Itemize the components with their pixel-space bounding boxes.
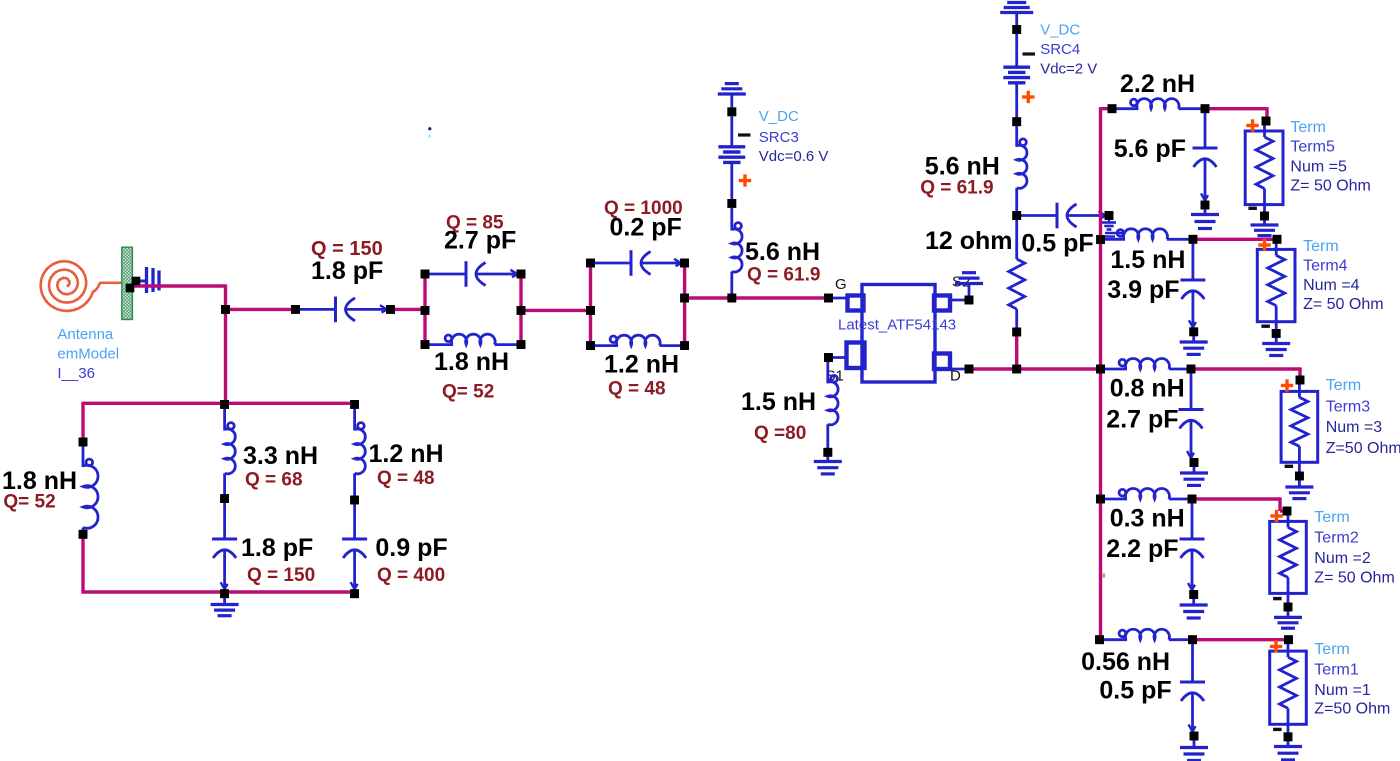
C1 value labels (311, 238, 383, 285)
C6 mini ground marker (1102, 220, 1116, 230)
svg-text:Z= 50 Ohm: Z= 50 Ohm (1303, 296, 1383, 313)
resistor R1 12 ohm (1009, 216, 1025, 337)
L8 labels (741, 388, 816, 444)
svg-text:Q = 48: Q = 48 (377, 468, 435, 489)
L11 label (1110, 246, 1185, 274)
svg-text:Term: Term (1326, 377, 1362, 394)
svg-text:Num =4: Num =4 (1303, 277, 1360, 294)
svg-text:3.9 pF: 3.9 pF (1107, 276, 1179, 304)
svg-text:Z= 50 Ohm: Z= 50 Ohm (1290, 178, 1370, 195)
L4 labels (2, 467, 77, 513)
inductor L2 1.8 nH (tank1) (425, 334, 521, 344)
ground S1 inductor (814, 452, 842, 474)
capacitor C6 0.5 pF (feedback) (1017, 203, 1114, 229)
U1 S1 tab (847, 343, 865, 369)
wire antenna to corner (133, 284, 226, 287)
svg-text:0.3 nH: 0.3 nH (1110, 505, 1185, 533)
ground C10 (1180, 595, 1208, 619)
svg-text:Term: Term (1314, 641, 1350, 658)
svg-text:5.6 nH: 5.6 nH (925, 153, 1000, 181)
L14 label (1081, 648, 1170, 676)
tank1 left rail (421, 270, 430, 349)
svg-text:Term: Term (1290, 119, 1326, 136)
tank2 labels (604, 198, 683, 400)
svg-text:1.5 nH: 1.5 nH (741, 388, 816, 416)
svg-text:1.2 nH: 1.2 nH (604, 351, 679, 379)
U1 name label (838, 317, 956, 334)
inductor L8 1.5 nH (source degeneration) (823, 362, 838, 457)
antenna feed pins (junction squares) (126, 277, 140, 292)
pin D lead (950, 365, 973, 374)
node drain bias junction (1012, 211, 1021, 220)
svg-text:Term4: Term4 (1303, 258, 1348, 275)
tank1 labels (434, 213, 516, 403)
svg-text:2.7 pF: 2.7 pF (444, 227, 516, 255)
svg-text:Num =1: Num =1 (1314, 682, 1371, 699)
pin label D (950, 368, 961, 385)
svg-text:Num =2: Num =2 (1314, 550, 1371, 567)
L9 labels (920, 153, 1000, 199)
svg-text:Q= 52: Q= 52 (442, 382, 494, 403)
tank2 left rail (586, 259, 595, 350)
shunt bottom rail (83, 590, 355, 593)
ground C11 (1180, 736, 1208, 761)
pin S1 lead (824, 353, 846, 362)
svg-text:SRC4: SRC4 (1040, 41, 1080, 58)
svg-text:Z=50 Ohm: Z=50 Ohm (1326, 440, 1400, 457)
V_DC SRC4 battery (1003, 34, 1035, 126)
svg-text:Term2: Term2 (1314, 530, 1359, 547)
terminal Term3 (1281, 376, 1400, 499)
svg-text:5.6 pF: 5.6 pF (1114, 135, 1186, 163)
svg-text:emModel: emModel (57, 346, 119, 363)
inductor L14 0.56 nH (1100, 629, 1197, 644)
tank2 right rail (680, 259, 689, 350)
wire row4 to Term4 (1193, 238, 1277, 241)
capacitor C2 2.7 pF (tank1) (425, 261, 519, 287)
svg-text:D: D (950, 368, 961, 385)
svg-text:Q = 61.9: Q = 61.9 (920, 178, 993, 199)
pin S2 lead (950, 296, 973, 305)
svg-text:0.2 pF: 0.2 pF (610, 214, 682, 242)
L7 labels (745, 238, 820, 286)
inductor L5 3.3 nH (mid shunt) (220, 400, 235, 503)
wire D to bus (973, 365, 1101, 374)
wire tank1 to tank2 (521, 309, 591, 312)
row4 bus junction (1096, 235, 1105, 244)
port symbol P1 (three bars) (140, 267, 160, 293)
ground C9 (1180, 463, 1208, 486)
wire tank2 to gate node (685, 296, 732, 299)
inductor L11 1.5 nH (1101, 229, 1198, 244)
svg-text:1.8 nH: 1.8 nH (434, 348, 509, 376)
svg-text:Q =80: Q =80 (754, 423, 806, 444)
inductor L3 1.2 nH (tank2) (591, 335, 685, 345)
svg-text:Z= 50 Ohm: Z= 50 Ohm (1314, 570, 1394, 587)
svg-text:5.6 nH: 5.6 nH (745, 238, 820, 266)
svg-text:1.8 pF: 1.8 pF (311, 257, 383, 285)
L5 C4 labels (241, 442, 318, 586)
wire corner down input node (224, 284, 227, 309)
antenna labels (57, 326, 119, 382)
transistor U1 Latest_ATF54143 body (862, 285, 935, 383)
wire row2 to Term2 (1192, 497, 1287, 511)
svg-text:0.8 nH: 0.8 nH (1110, 375, 1185, 403)
svg-text:0.9 pF: 0.9 pF (375, 534, 447, 562)
capacitor C7 5.6 pF (1193, 109, 1218, 210)
svg-text:2.7 pF: 2.7 pF (1106, 406, 1178, 434)
svg-text:Q = 400: Q = 400 (377, 565, 445, 586)
wire row5 to Term5 (1205, 107, 1267, 121)
antenna ANT spiral symbol (41, 261, 122, 311)
tank1 right rail (517, 270, 526, 349)
svg-text:Q = 150: Q = 150 (247, 565, 315, 586)
svg-text:0.56 nH: 0.56 nH (1081, 648, 1170, 676)
capacitor C10 2.2 pF (1180, 499, 1205, 599)
ground C8 (1180, 332, 1208, 355)
svg-text:I__36: I__36 (57, 365, 95, 382)
svg-text:V_DC: V_DC (1040, 22, 1080, 39)
U1 S2 tab (934, 296, 950, 311)
capacitor C8 3.9 pF (1180, 239, 1205, 336)
wire row1 to Term1 (1193, 638, 1289, 641)
row1 bus corner (1095, 635, 1104, 644)
svg-text:SRC3: SRC3 (759, 129, 799, 146)
svg-text:Num =3: Num =3 (1326, 419, 1383, 436)
svg-text:Vdc=0.6 V: Vdc=0.6 V (759, 148, 829, 165)
ground C7 (1191, 205, 1219, 229)
svg-text:1.2 nH: 1.2 nH (369, 440, 444, 468)
inductor L7 5.6 nH (gate bias) (732, 208, 742, 298)
svg-text:Q = 68: Q = 68 (245, 470, 303, 491)
output matching bus (1099, 107, 1102, 641)
C11 label (1099, 677, 1171, 705)
svg-text:0.5 pF: 0.5 pF (1099, 677, 1171, 705)
svg-text:Q= 52: Q= 52 (3, 492, 55, 513)
inductor L12 0.8 nH (1101, 359, 1196, 374)
svg-text:Q = 48: Q = 48 (608, 379, 666, 400)
svg-text:Term: Term (1303, 238, 1339, 255)
ground SRC4 (top) (1000, 3, 1033, 34)
C9 label (1106, 406, 1178, 434)
svg-text:Latest_ATF54143: Latest_ATF54143 (838, 317, 956, 334)
inductor L6 1.2 nH (right shunt) (350, 400, 365, 504)
ground shunt network (211, 594, 239, 616)
capacitor C4 1.8 pF (mid shunt) (212, 499, 237, 598)
svg-text:1.5 nH: 1.5 nH (1110, 246, 1185, 274)
inductor L10 2.2 nH (1108, 99, 1210, 113)
wire input node to C1 (226, 308, 296, 311)
svg-text:0.5 pF: 0.5 pF (1021, 230, 1093, 258)
L13 label (1110, 505, 1185, 533)
svg-text:2.2 pF: 2.2 pF (1106, 535, 1178, 563)
svg-text:Term3: Term3 (1326, 399, 1371, 416)
SRC4 labels (1040, 22, 1097, 78)
wire row3 to Term3 (1191, 367, 1300, 380)
svg-text:3.3 nH: 3.3 nH (243, 442, 318, 470)
svg-text:G: G (835, 276, 847, 293)
wire input node down to shunt rail (224, 309, 227, 403)
svg-text:Num =5: Num =5 (1290, 159, 1347, 176)
row3 bus junction (1096, 365, 1105, 374)
L12 label (1110, 375, 1185, 403)
svg-text:2.2 nH: 2.2 nH (1120, 70, 1195, 98)
emModel port (green hatched rectangle) (122, 247, 133, 319)
pin G lead (824, 294, 847, 303)
capacitor C3 0.2 pF (tank2) (591, 250, 683, 276)
terminal Term1 (1270, 635, 1391, 760)
V_DC SRC3 battery (718, 116, 751, 208)
U1 drain tab (934, 354, 950, 370)
C8 label (1107, 276, 1179, 304)
pin label G (835, 276, 847, 293)
svg-text:12 ohm: 12 ohm (925, 227, 1013, 255)
svg-text:Q = 61.9: Q = 61.9 (747, 265, 820, 286)
SRC3 labels (759, 108, 829, 165)
svg-text:Antenna: Antenna (57, 326, 114, 343)
wire R1 to drain wire (1015, 332, 1018, 369)
terminal Term4 (1257, 235, 1383, 356)
inductor L13 0.3 nH (1101, 489, 1197, 504)
svg-text:Term: Term (1314, 509, 1350, 526)
C10 label (1106, 535, 1178, 563)
capacitor C1 1.8 pF (series input) (291, 297, 395, 323)
pin label S1 (826, 368, 844, 385)
inductor L9 5.6 nH (drain bias) (1017, 126, 1027, 215)
svg-text:Term5: Term5 (1290, 139, 1335, 156)
L10 label (1120, 70, 1195, 98)
C7 label (1114, 135, 1186, 163)
wire gate junction to G pin (732, 296, 829, 299)
terminal Term5 (1245, 117, 1371, 236)
bus orange tick (1103, 574, 1106, 578)
row5 bus corner wire (1101, 107, 1113, 110)
C6 labels (925, 227, 1094, 258)
terminal Term2 (1270, 507, 1395, 629)
ground SRC3 (top) (718, 84, 746, 117)
ground S2 (955, 273, 983, 296)
wire C1 to tank1 (391, 308, 426, 311)
L11 start marks (1105, 233, 1124, 237)
pin label S2 (952, 274, 970, 291)
capacitor C5 0.9 pF (right shunt) (342, 500, 367, 598)
node gate junction (727, 294, 736, 303)
L6 C5 labels (369, 440, 448, 586)
capacitor C9 2.7 pF (1179, 369, 1204, 467)
shunt top rail (83, 402, 354, 442)
node A junction (221, 305, 230, 314)
inductor L4 1.8 nH (left shunt) (79, 438, 98, 539)
svg-text:1.8 pF: 1.8 pF (241, 534, 313, 562)
svg-text:Z=50 Ohm: Z=50 Ohm (1314, 701, 1390, 718)
svg-text:Term1: Term1 (1314, 662, 1359, 679)
row2 bus junction (1096, 495, 1105, 504)
wire L4 to bottom rail (81, 534, 84, 593)
svg-text:V_DC: V_DC (759, 108, 799, 125)
svg-text:Vdc=2 V: Vdc=2 V (1040, 61, 1097, 78)
stray dots (428, 127, 431, 137)
U1 gate tab (848, 296, 864, 311)
capacitor C11 0.5 pF (1180, 640, 1205, 741)
